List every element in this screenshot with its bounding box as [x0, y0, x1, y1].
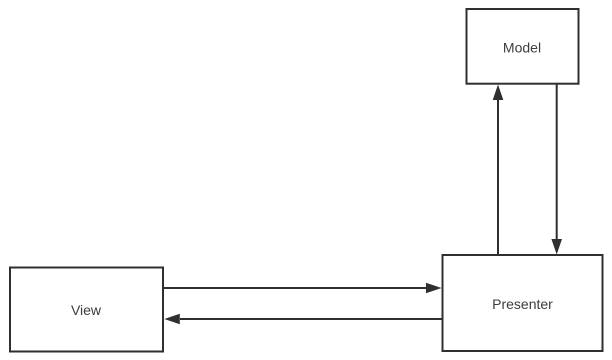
svg-text:View: View — [71, 302, 102, 318]
svg-text:Model: Model — [503, 40, 541, 56]
svg-text:Presenter: Presenter — [492, 296, 553, 312]
